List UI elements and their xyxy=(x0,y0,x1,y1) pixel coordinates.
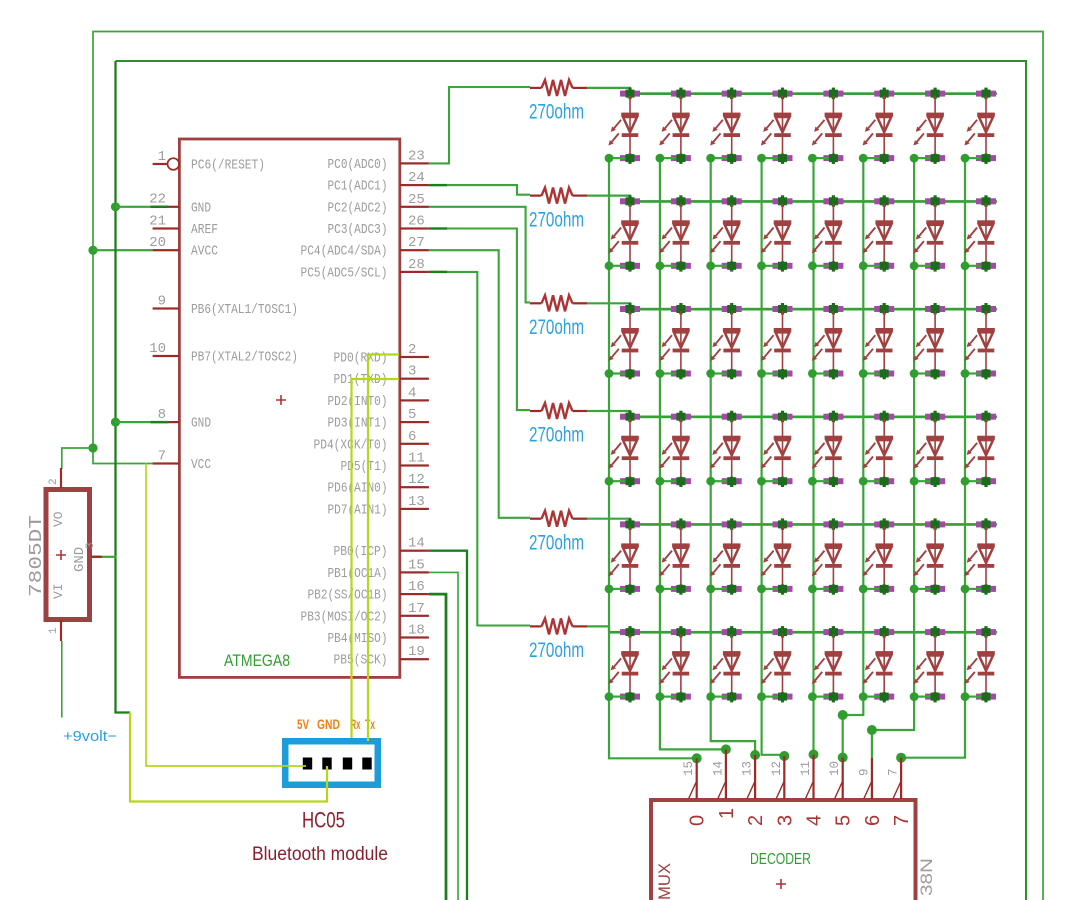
wire LED row 2 anode line xyxy=(629,200,997,203)
svg-text:2: 2 xyxy=(48,478,60,485)
resistor R3 270ohm xyxy=(530,295,587,311)
wire PC1 pin24 to resistor xyxy=(429,185,530,195)
LED row3 col3 xyxy=(706,303,741,379)
LED row3 col6 xyxy=(859,303,894,379)
svg-text:9: 9 xyxy=(857,768,871,776)
LED row6 col3 xyxy=(706,626,741,702)
svg-text:21: 21 xyxy=(149,213,166,229)
svg-text:PB3(MOSI/OC2): PB3(MOSI/OC2) xyxy=(301,610,388,625)
ATMEGA8 pin 18 (PB4(MISO)) xyxy=(328,623,429,648)
svg-text:PB5(SCK): PB5(SCK) xyxy=(334,654,388,669)
svg-text:13: 13 xyxy=(741,761,755,776)
LED row2 col7 xyxy=(910,195,945,271)
wire GND to pin 8 xyxy=(116,421,153,423)
ATMEGA8 pin 20 (AVCC) xyxy=(149,235,218,260)
7805 pin 3 stub xyxy=(91,556,102,558)
ATMEGA8 origin cross xyxy=(276,395,286,405)
svg-text:7805DT: 7805DT xyxy=(27,515,47,597)
svg-text:4: 4 xyxy=(804,815,826,826)
wire GND net: top rail and right drop xyxy=(116,61,1027,900)
wire LED row 6 anode line xyxy=(608,631,997,634)
ATMEGA8 pin 11 (PD5(T1)) xyxy=(341,451,429,476)
svg-text:VO: VO xyxy=(51,511,66,527)
LED row2 col6 xyxy=(859,195,894,271)
svg-text:PB6(XTAL1/TOSC1): PB6(XTAL1/TOSC1) xyxy=(191,303,298,318)
ATMEGA8 pin 28 (PC5(ADC5/SCL)) xyxy=(301,257,429,282)
svg-text:3: 3 xyxy=(85,542,97,549)
svg-text:4: 4 xyxy=(408,385,416,401)
decoder pin 15 stub xyxy=(682,758,698,799)
LED row3 col8 xyxy=(961,303,996,379)
LED row6 col2 xyxy=(656,626,691,702)
IC ATMEGA8 body xyxy=(179,139,399,677)
wire resistor R6 to row 6 xyxy=(587,626,609,632)
LED row4 col7 xyxy=(910,411,945,487)
decoder pin 11 stub xyxy=(799,755,815,800)
wire PC4 pin27 to resistor xyxy=(429,250,530,518)
svg-text:270ohm: 270ohm xyxy=(529,208,584,231)
wire resistor R3 to row 3 xyxy=(587,303,630,309)
svg-text:PB2(SS/OC1B): PB2(SS/OC1B) xyxy=(308,589,388,604)
svg-text:15: 15 xyxy=(682,761,696,776)
wire LED column 2 cathode net to decoder xyxy=(660,158,726,750)
svg-text:5: 5 xyxy=(408,407,416,423)
LED row2 col4 xyxy=(757,195,792,271)
ATMEGA8 pin 22 (GND) xyxy=(149,192,211,217)
node junction column 6 corner xyxy=(838,710,848,720)
ATMEGA8 pin 1 (PC6(/RESET)) xyxy=(153,149,265,174)
svg-text:ATMEGA8: ATMEGA8 xyxy=(224,651,290,670)
svg-text:270ohm: 270ohm xyxy=(529,424,584,447)
node junction column 8 at decoder pin xyxy=(896,753,906,763)
resistor R5 270ohm xyxy=(530,511,587,527)
wire LED column 6 cathode net to decoder xyxy=(843,158,864,758)
svg-text:1: 1 xyxy=(48,627,60,634)
svg-text:24: 24 xyxy=(408,170,425,186)
LED row6 col5 xyxy=(808,626,843,702)
svg-text:MUX: MUX xyxy=(655,863,674,900)
LED row5 col2 xyxy=(656,518,691,594)
svg-text:8: 8 xyxy=(158,407,166,423)
ATMEGA8 pin 6 (PD4(XCK/T0)) xyxy=(314,429,429,454)
LED row4 col6 xyxy=(859,411,894,487)
svg-text:270ohm: 270ohm xyxy=(529,531,584,554)
svg-text:PC2(ADC2): PC2(ADC2) xyxy=(328,201,388,216)
LED row2 col2 xyxy=(656,195,691,271)
LED row6 col1 xyxy=(605,626,640,702)
ATMEGA8 pin 21 (AREF) xyxy=(149,213,218,238)
svg-text:13: 13 xyxy=(408,494,425,510)
svg-text:PC3(ADC3): PC3(ADC3) xyxy=(328,223,388,238)
LED row2 col8 xyxy=(961,195,996,271)
svg-text:GND: GND xyxy=(317,716,340,732)
svg-text:10: 10 xyxy=(828,761,842,776)
LED row4 col1 xyxy=(605,411,640,487)
svg-text:14: 14 xyxy=(408,536,425,552)
LED row1 col2 xyxy=(656,88,691,164)
svg-text:GND: GND xyxy=(72,547,88,572)
svg-text:12: 12 xyxy=(408,472,425,488)
wire LED row 4 anode line xyxy=(629,416,997,419)
wire PB0 pin14 down xyxy=(429,551,467,900)
svg-text:PC5(ADC5/SCL): PC5(ADC5/SCL) xyxy=(301,266,388,281)
wire LED column 5 cathode net to decoder xyxy=(812,158,814,755)
wire LED column 3 cathode net to decoder xyxy=(711,158,755,756)
svg-text:PC0(ADC0): PC0(ADC0) xyxy=(328,158,388,173)
ATMEGA8 pin 8 (GND) xyxy=(153,407,211,432)
svg-text:10: 10 xyxy=(149,341,166,357)
LED row4 col8 xyxy=(961,411,996,487)
IC DECODER 74HC138 body xyxy=(651,800,916,900)
svg-text:PB0(ICP): PB0(ICP) xyxy=(334,545,388,560)
svg-text:PB7(XTAL2/TOSC2): PB7(XTAL2/TOSC2) xyxy=(191,351,298,366)
ATMEGA8 pin 26 (PC3(ADC3)) xyxy=(328,214,429,239)
svg-text:14: 14 xyxy=(711,761,725,776)
ATMEGA8 pin 5 (PD3(INT1)) xyxy=(328,407,429,432)
svg-text:7: 7 xyxy=(887,768,901,776)
svg-text:3: 3 xyxy=(408,364,416,380)
svg-text:17: 17 xyxy=(408,601,425,617)
ATMEGA8 pin 13 (PD7(AIN1)) xyxy=(328,494,429,519)
svg-text:PB1(OC1A): PB1(OC1A) xyxy=(328,567,388,582)
svg-text:Tx: Tx xyxy=(365,716,375,732)
LED row6 col4 xyxy=(757,626,792,702)
wire LED column 7 cathode net to decoder xyxy=(872,158,914,759)
svg-text:38N: 38N xyxy=(917,858,936,896)
svg-text:18: 18 xyxy=(408,623,425,639)
node junction column 2 at decoder pin xyxy=(721,744,731,754)
svg-text:PC4(ADC4/SDA): PC4(ADC4/SDA) xyxy=(301,245,388,260)
decoder pin 14 stub xyxy=(711,749,727,799)
LED row1 col8 xyxy=(961,88,996,164)
node junction column 6 at decoder pin xyxy=(838,753,848,763)
svg-text:22: 22 xyxy=(149,192,166,208)
node junction column 4 at decoder pin xyxy=(779,751,789,761)
ATMEGA8 pin 12 (PD6(AIN0)) xyxy=(328,472,429,497)
LED row4 col5 xyxy=(808,411,843,487)
svg-text:2: 2 xyxy=(408,342,416,358)
LED row3 col4 xyxy=(757,303,792,379)
LED row3 col2 xyxy=(656,303,691,379)
svg-text:1: 1 xyxy=(158,149,166,165)
resistor R2 270ohm xyxy=(530,188,587,204)
node junction GND pin 22 xyxy=(111,202,120,211)
svg-text:HC05: HC05 xyxy=(302,808,345,833)
svg-text:VI: VI xyxy=(51,583,66,599)
svg-text:11: 11 xyxy=(799,761,813,776)
svg-text:GND: GND xyxy=(191,417,211,432)
wire TXD pin3 to HC05 Rx xyxy=(352,379,400,738)
LED row3 col7 xyxy=(910,303,945,379)
svg-text:PD1(TXD): PD1(TXD) xyxy=(334,373,388,388)
wire GND to pin 22 xyxy=(116,206,153,208)
svg-text:DECODER: DECODER xyxy=(750,851,811,868)
svg-text:PC1(ADC1): PC1(ADC1) xyxy=(328,180,388,195)
svg-text:28: 28 xyxy=(408,257,425,273)
node junction column 7 at decoder pin xyxy=(867,725,877,735)
decoder pin 13 stub xyxy=(741,755,757,799)
LED row3 col5 xyxy=(808,303,843,379)
svg-text:AREF: AREF xyxy=(191,223,218,238)
LED row4 col2 xyxy=(656,411,691,487)
svg-text:5: 5 xyxy=(833,815,855,826)
svg-text:7: 7 xyxy=(891,815,913,826)
wire resistor R2 to row 2 xyxy=(587,196,630,202)
svg-text:VCC: VCC xyxy=(191,458,211,473)
ATMEGA8 pin 16 (PB2(SS/OC1B)) xyxy=(308,579,429,604)
svg-text:12: 12 xyxy=(770,761,784,776)
wire GND to HC05 pin2 xyxy=(130,713,327,802)
wire LED column 1 cathode net to decoder xyxy=(609,158,697,759)
LED row5 col5 xyxy=(808,518,843,594)
wire AVCC to pin 20 xyxy=(93,249,153,251)
ATMEGA8 pin 3 (PD1(TXD)) xyxy=(334,364,429,389)
svg-text:Bluetooth module: Bluetooth module xyxy=(252,843,388,865)
wire resistor R4 to row 4 xyxy=(587,411,630,417)
svg-text:270ohm: 270ohm xyxy=(529,101,584,124)
connector HC05 body xyxy=(282,738,381,788)
ATMEGA8 pin 27 (PC4(ADC4/SDA)) xyxy=(301,235,429,260)
LED row5 col8 xyxy=(961,518,996,594)
LED row1 col4 xyxy=(757,88,792,164)
LED row2 col5 xyxy=(808,195,843,271)
svg-text:PD6(AIN0): PD6(AIN0) xyxy=(328,482,388,497)
svg-text:6: 6 xyxy=(862,815,884,826)
wire resistor R5 to row 5 xyxy=(587,519,630,525)
LED row3 col1 xyxy=(605,303,640,379)
node junction AVCC tap xyxy=(88,246,97,255)
voltage regulator 7805DT xyxy=(46,490,90,620)
svg-text:PC6(/RESET): PC6(/RESET) xyxy=(191,159,265,174)
7805 pin 2 stub xyxy=(60,468,62,488)
wire overlap ticks xyxy=(151,184,448,423)
svg-text:0: 0 xyxy=(687,815,709,826)
node junction column 3 at decoder pin xyxy=(750,750,760,760)
decoder pin 7 stub xyxy=(887,758,903,799)
LED row6 col6 xyxy=(859,626,894,702)
ATMEGA8 pin 15 (PB1(OC1A)) xyxy=(328,557,429,582)
svg-text:9: 9 xyxy=(158,293,166,309)
resistor R4 270ohm xyxy=(530,403,587,419)
svg-text:16: 16 xyxy=(408,579,425,595)
wire PC0 pin23 to resistor xyxy=(429,87,530,163)
svg-text:1: 1 xyxy=(716,808,738,819)
svg-text:GND: GND xyxy=(191,201,211,216)
svg-text:23: 23 xyxy=(408,148,425,164)
wire LED column 4 cathode net to decoder xyxy=(762,158,785,755)
ATMEGA8 pin 9 (PB6(XTAL1/TOSC1)) xyxy=(153,293,298,318)
7805 origin cross xyxy=(56,550,66,560)
LED row1 col7 xyxy=(910,88,945,164)
decoder pin 9 stub xyxy=(857,758,873,799)
wire GND left vertical xyxy=(116,61,131,713)
ATMEGA8 pin 19 (PB5(SCK)) xyxy=(334,644,429,669)
wire PC2 pin25 to resistor xyxy=(429,207,530,303)
svg-text:AVCC: AVCC xyxy=(191,245,218,260)
ATMEGA8 pin 23 (PC0(ADC0)) xyxy=(328,148,429,173)
wire RXD pin2 to HC05 Tx xyxy=(368,355,399,742)
decoder pin 12 stub xyxy=(770,756,786,799)
LED row6 col8 xyxy=(961,626,996,702)
ATMEGA8 pin 25 (PC2(ADC2)) xyxy=(328,192,429,217)
svg-text:PD2(INT0): PD2(INT0) xyxy=(328,395,388,410)
LED row1 col5 xyxy=(808,88,843,164)
wire LED row 5 anode line xyxy=(629,523,997,526)
ATMEGA8 pin 4 (PD2(INT0)) xyxy=(328,385,429,410)
LED row1 col3 xyxy=(706,88,741,164)
LED row5 col6 xyxy=(859,518,894,594)
LED row5 col3 xyxy=(706,518,741,594)
svg-text:PB4(MISO): PB4(MISO) xyxy=(328,632,388,647)
wire LED row 3 anode line xyxy=(629,308,997,311)
LED row2 col3 xyxy=(706,195,741,271)
svg-text:19: 19 xyxy=(408,644,425,660)
connector HC05 labels 5V GND Rx Tx xyxy=(297,716,375,732)
ATMEGA8 pin 2 (PD0(RXD)) xyxy=(334,342,429,367)
svg-text:11: 11 xyxy=(408,451,425,467)
wire resistor R1 to row 1 xyxy=(587,88,630,94)
ATMEGA8 pin 10 (PB7(XTAL2/TOSC2)) xyxy=(149,341,298,366)
svg-text:2: 2 xyxy=(745,815,767,826)
LED row4 col3 xyxy=(706,411,741,487)
svg-text:20: 20 xyxy=(149,235,166,251)
svg-text:26: 26 xyxy=(408,214,425,230)
wire 7805 VI to +9volt xyxy=(61,641,63,718)
ATMEGA8 pin 24 (PC1(ADC1)) xyxy=(328,170,429,195)
svg-text:5V: 5V xyxy=(297,716,309,732)
svg-text:3: 3 xyxy=(774,815,796,826)
LED row5 col1 xyxy=(605,518,640,594)
ATMEGA8 pin 7 (VCC) xyxy=(153,448,211,473)
node junction 7805 VO tap xyxy=(88,443,97,452)
LED row4 col4 xyxy=(757,411,792,487)
wire PB1 pin15 down xyxy=(429,572,458,900)
svg-text:6: 6 xyxy=(408,429,416,445)
wire PC3 pin26 to resistor xyxy=(429,229,530,411)
wire GND to 7805 pin 3 xyxy=(92,556,117,558)
wire +5V to 7805 VO pin 2 xyxy=(62,448,93,469)
svg-text:PD5(T1): PD5(T1) xyxy=(341,460,388,475)
wire 5V to HC05 pin1 xyxy=(146,464,306,767)
node junction column 5 at decoder pin xyxy=(809,750,819,760)
wire PB2 pin16 down xyxy=(429,594,446,900)
svg-text:25: 25 xyxy=(408,192,425,208)
svg-text:270ohm: 270ohm xyxy=(529,316,584,339)
svg-text:PD3(INT1): PD3(INT1) xyxy=(328,417,388,432)
svg-text:7: 7 xyxy=(158,448,166,464)
LED row5 col7 xyxy=(910,518,945,594)
node junction GND pin 8 xyxy=(111,418,120,427)
HC05 pin pads xyxy=(303,758,372,770)
svg-text:270ohm: 270ohm xyxy=(529,639,584,662)
LED row5 col4 xyxy=(757,518,792,594)
LED row2 col1 xyxy=(605,195,640,271)
decoder origin cross xyxy=(776,879,786,889)
ATMEGA8 pin 17 (PB3(MOSI/OC2)) xyxy=(301,601,429,626)
svg-text:+9volt−: +9volt− xyxy=(63,728,117,745)
decoder pin 10 stub xyxy=(828,758,844,800)
7805 pin 1 stub xyxy=(60,620,62,641)
svg-text:27: 27 xyxy=(408,235,425,251)
svg-text:15: 15 xyxy=(408,557,425,573)
wire PC5 pin28 to resistor xyxy=(429,272,530,626)
wire LED column 8 cathode net to decoder xyxy=(901,158,965,758)
LED row1 col6 xyxy=(859,88,894,164)
ATMEGA8 pin 14 (PB0(ICP)) xyxy=(334,536,429,561)
LED row1 col1 xyxy=(605,88,640,164)
node junction column 1 at decoder pin xyxy=(692,753,702,763)
LED row6 col7 xyxy=(910,626,945,702)
svg-text:PD7(AIN1): PD7(AIN1) xyxy=(328,503,388,518)
resistor R6 270ohm xyxy=(530,618,587,634)
wire LED row 1 anode line xyxy=(629,92,997,95)
resistor R1 270ohm xyxy=(530,80,587,96)
